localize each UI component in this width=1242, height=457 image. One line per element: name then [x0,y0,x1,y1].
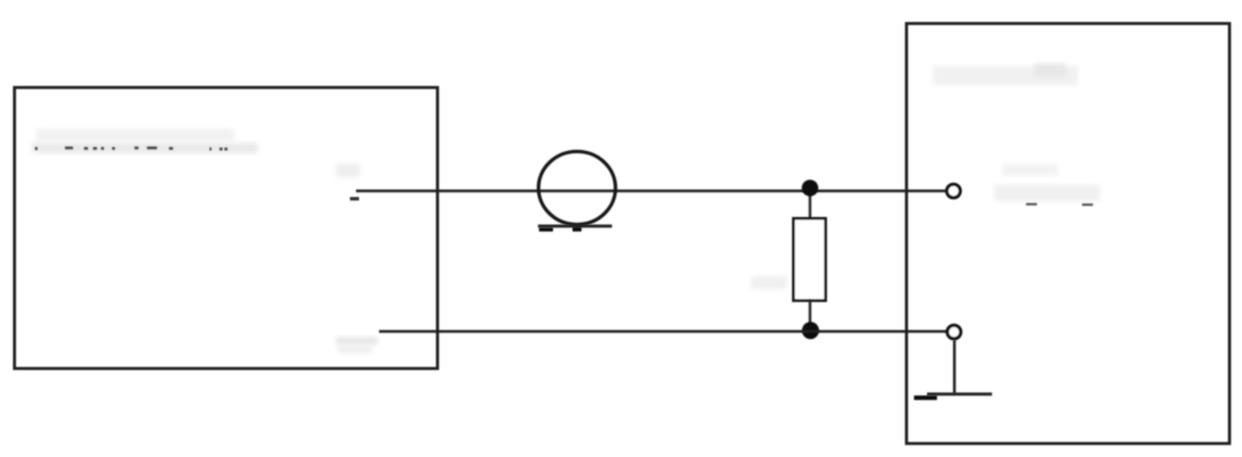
dark dash fragment a [1026,203,1037,205]
ground bar [927,393,992,396]
faint title band in right box [933,66,1078,85]
left instrument box [15,88,438,369]
resistor stub top [809,193,812,219]
source/meter circle [539,152,616,225]
dark speck fragments of left box label [35,147,228,151]
faint right box text line 2 [994,185,1100,201]
resistor stub bottom [809,300,812,326]
dark dash fragment b [1082,204,1093,206]
upper terminal [947,184,960,197]
resistor body [794,219,826,301]
faint label left of resistor [751,276,787,289]
node dot bottom [802,322,819,339]
upper wire [356,190,946,193]
faint right box text line 1 [1002,164,1058,176]
lower terminal [947,325,960,338]
faint label line 1 in left box [36,129,234,141]
ground heavy dash [914,396,937,401]
node dot top [802,180,819,197]
faint label near lower wire start [336,337,378,345]
right instrument box [907,24,1230,444]
dark dash left under circle [539,228,553,232]
dash mark under upper wire start [350,197,359,201]
dark dash center under circle [573,227,582,232]
bar under circle [538,225,612,228]
ground lead [953,340,956,394]
faint label near upper wire start [336,164,360,177]
lower wire [379,330,947,333]
faint label line 2 in left box [32,143,258,153]
